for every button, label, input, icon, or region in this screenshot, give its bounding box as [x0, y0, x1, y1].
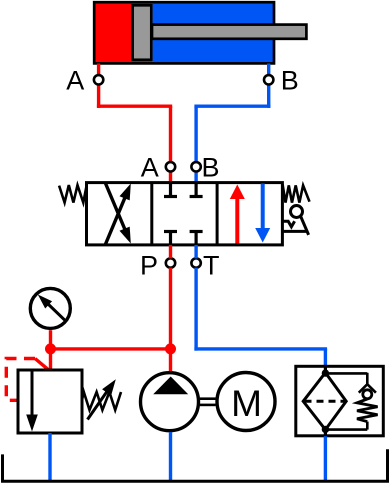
svg-text:P: P	[140, 250, 158, 280]
wire pump to tank (blue)	[169, 432, 172, 481]
filter element (dashed)	[305, 400, 347, 403]
filter F1 box	[296, 366, 384, 436]
filter diamond	[303, 373, 346, 430]
svg-text:B: B	[201, 152, 219, 182]
valve left cell crossed arrow 2	[105, 183, 131, 244]
wire cylinder port B (blue)	[194, 64, 270, 184]
filter bypass spring	[357, 399, 378, 422]
valve right cell red up-arrow	[230, 185, 245, 244]
filter junction dot top	[322, 369, 329, 376]
valve center cell blocked port bottom-left	[164, 232, 177, 245]
relief valve V1 body	[18, 370, 82, 433]
pressure gauge	[30, 288, 70, 328]
valve right cell blue down-arrow	[255, 184, 270, 243]
filter bypass check valve seat	[359, 373, 376, 393]
port circle cylinder B	[264, 75, 273, 84]
valve left cell crossed arrow 1	[105, 184, 131, 245]
junction dot at pump line	[165, 343, 176, 354]
wire cylinder port A (red)	[97, 64, 172, 184]
wire P to pump (red)	[169, 245, 172, 373]
wire stub filter inlet (black)	[324, 366, 327, 374]
relief valve internal arrow	[26, 370, 38, 432]
port circle valve A	[166, 162, 175, 171]
motor M1	[217, 373, 275, 431]
wire stub filter outlet (black)	[324, 429, 327, 437]
cylinder body	[94, 2, 274, 63]
valve detent roller circle	[291, 206, 303, 218]
filter bypass line bottom	[325, 422, 367, 430]
pump P1	[141, 373, 199, 431]
wire filter to tank (blue)	[324, 436, 327, 481]
valve detent notch	[282, 221, 294, 227]
filter bypass check valve ball	[363, 390, 372, 399]
cylinder rod	[152, 25, 306, 39]
port circle cylinder A	[94, 75, 103, 84]
valve U1 body	[87, 183, 283, 245]
relief valve adjustment arrow	[88, 379, 116, 419]
junction dot at gauge	[45, 343, 56, 354]
wire T to filter (blue)	[194, 245, 327, 367]
valve center cell blocked port top-right	[190, 183, 203, 197]
wire relief valve to tank (blue)	[48, 433, 51, 481]
cylinder piston	[133, 5, 152, 60]
port circle T	[191, 258, 200, 267]
valve center cell blocked port top-left	[164, 183, 177, 197]
relief valve pilot line (dashed red)	[6, 359, 48, 401]
valve detent base line	[282, 230, 307, 233]
filter bypass line top	[325, 372, 367, 375]
port circle P	[166, 258, 175, 267]
svg-text:A: A	[141, 152, 159, 182]
filter junction dot bottom	[322, 426, 329, 433]
pump-motor shaft	[200, 399, 216, 405]
svg-text:M: M	[231, 383, 262, 424]
valve detent lever	[300, 216, 308, 235]
relief valve spring	[82, 392, 121, 410]
svg-text:T: T	[203, 250, 220, 280]
valve center cell blocked port bottom-right	[190, 232, 203, 245]
svg-text:A: A	[66, 65, 84, 95]
tank	[3, 449, 388, 481]
valve left spring	[59, 185, 87, 203]
valve right spring	[283, 185, 310, 203]
port circle valve B	[191, 162, 200, 171]
wire gauge manifold (red)	[51, 330, 171, 370]
svg-text:B: B	[281, 65, 299, 95]
